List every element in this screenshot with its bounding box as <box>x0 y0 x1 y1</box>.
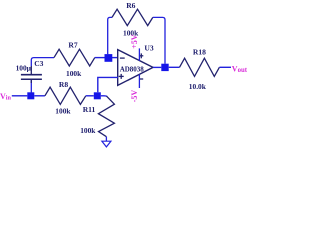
svg-text:R8: R8 <box>59 80 68 89</box>
svg-text:U3: U3 <box>144 44 153 53</box>
resistor R6 <box>112 9 153 25</box>
resistor R7 <box>54 49 95 66</box>
node N2 junction <box>94 92 101 99</box>
wire R11 to ground <box>105 137 107 141</box>
svg-text:R7: R7 <box>68 40 77 49</box>
wire Vin to node N1 <box>12 95 27 97</box>
op-amp minus input sign <box>120 57 125 59</box>
wire R6 right to output node N4 <box>153 17 165 63</box>
resistor R11 <box>98 96 114 137</box>
capacitor C3 <box>21 66 42 83</box>
wire node N1 to R8 <box>34 95 45 97</box>
svg-text:Vin: Vin <box>0 92 12 102</box>
svg-text:AD8038: AD8038 <box>120 66 145 74</box>
wire node N3 to op-amp minus input <box>112 57 118 59</box>
wire op-amp top power pin <box>138 48 140 60</box>
svg-text:100µ: 100µ <box>16 64 32 73</box>
svg-text:C3: C3 <box>34 59 43 68</box>
node N4 output junction <box>161 64 168 71</box>
wire capacitor top corner to R7 <box>31 58 54 66</box>
wire op-amp bottom power pin <box>138 75 140 89</box>
svg-text:+5V: +5V <box>130 34 139 49</box>
resistor R18 <box>180 58 220 76</box>
wire node N2 to R11 top corner <box>101 95 107 98</box>
svg-text:R18: R18 <box>193 48 206 57</box>
op-amp plus power sign <box>139 55 143 57</box>
node N3 junction (minus input) <box>105 54 113 62</box>
wire node N4 to R18 <box>169 66 180 68</box>
svg-text:Vout: Vout <box>232 64 248 74</box>
wire node N3 up to R6 (feedback left leg) <box>108 17 112 54</box>
svg-text:-5V: -5V <box>130 90 139 103</box>
wire R18 to Vout <box>219 66 231 68</box>
svg-text:100k: 100k <box>80 126 96 135</box>
op-amp minus power sign <box>139 78 143 80</box>
resistor R8 <box>45 87 86 104</box>
wire node N1 up to capacitor <box>30 80 32 93</box>
ground <box>102 141 111 147</box>
svg-text:10.0k: 10.0k <box>189 82 207 91</box>
op-amp U3 triangle AD8038 <box>118 50 153 86</box>
wire op-amp output to node N4 <box>153 66 161 68</box>
wire node N2 up and to op-amp plus input <box>98 77 118 92</box>
wire R8 to node N2 <box>86 95 94 97</box>
wire R7 to node N3 <box>95 57 105 59</box>
node N1 junction <box>27 92 34 99</box>
svg-text:R6: R6 <box>126 1 135 10</box>
svg-text:100k: 100k <box>66 69 82 78</box>
op-amp plus input sign <box>119 75 124 77</box>
svg-text:R11: R11 <box>83 105 96 114</box>
svg-text:100k: 100k <box>55 107 71 116</box>
